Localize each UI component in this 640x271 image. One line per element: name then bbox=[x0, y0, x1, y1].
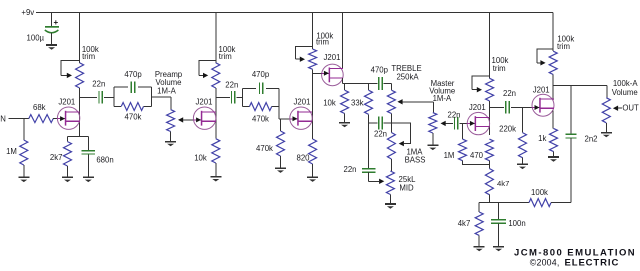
svg-text:IN: IN bbox=[0, 115, 6, 124]
svg-text:10k: 10k bbox=[194, 154, 207, 163]
svg-text:22n: 22n bbox=[225, 80, 238, 89]
svg-text:22n: 22n bbox=[503, 89, 516, 98]
svg-text:68k: 68k bbox=[33, 103, 46, 112]
svg-text:33k: 33k bbox=[351, 98, 364, 107]
svg-text:+9v: +9v bbox=[21, 8, 34, 17]
svg-text:J201: J201 bbox=[196, 97, 213, 106]
svg-text:OUT: OUT bbox=[622, 104, 639, 113]
svg-text:trim: trim bbox=[493, 64, 506, 73]
svg-text:J201: J201 bbox=[469, 103, 486, 112]
svg-text:J201: J201 bbox=[533, 86, 550, 95]
svg-text:4k7: 4k7 bbox=[497, 179, 509, 188]
svg-text:1M: 1M bbox=[6, 147, 17, 156]
svg-text:trim: trim bbox=[557, 42, 570, 51]
svg-text:100µ: 100µ bbox=[27, 34, 45, 43]
svg-text:©2004,: ©2004, bbox=[530, 258, 560, 268]
svg-text:trim: trim bbox=[219, 52, 232, 61]
svg-text:470p: 470p bbox=[124, 70, 142, 79]
svg-text:820: 820 bbox=[296, 154, 310, 163]
svg-text:MID: MID bbox=[399, 183, 414, 192]
svg-text:1M: 1M bbox=[444, 151, 455, 160]
svg-text:100k-A: 100k-A bbox=[613, 79, 639, 88]
svg-text:1k: 1k bbox=[538, 134, 546, 143]
svg-text:22n: 22n bbox=[343, 165, 356, 174]
svg-text:220k: 220k bbox=[499, 125, 516, 134]
svg-text:22n: 22n bbox=[447, 111, 460, 120]
svg-text:470k: 470k bbox=[252, 114, 269, 123]
svg-text:1M-A: 1M-A bbox=[433, 94, 452, 103]
svg-text:470p: 470p bbox=[252, 70, 270, 79]
svg-text:ELECTRIC: ELECTRIC bbox=[565, 258, 620, 269]
svg-text:10k: 10k bbox=[323, 98, 336, 107]
svg-text:22n: 22n bbox=[92, 80, 105, 89]
svg-text:J201: J201 bbox=[324, 53, 341, 62]
svg-text:J201: J201 bbox=[294, 97, 311, 106]
svg-text:470k: 470k bbox=[256, 144, 273, 153]
svg-text:1M-A: 1M-A bbox=[157, 86, 176, 95]
svg-text:470p: 470p bbox=[371, 65, 389, 74]
svg-text:470k: 470k bbox=[125, 113, 142, 122]
svg-text:+: + bbox=[53, 18, 58, 27]
svg-text:100k: 100k bbox=[531, 188, 548, 197]
svg-text:BASS: BASS bbox=[405, 156, 426, 165]
svg-text:22n: 22n bbox=[374, 130, 387, 139]
svg-text:680n: 680n bbox=[96, 155, 113, 164]
svg-text:250kA: 250kA bbox=[396, 72, 419, 81]
svg-text:100n: 100n bbox=[508, 219, 525, 228]
svg-text:2k7: 2k7 bbox=[50, 153, 63, 162]
svg-text:2n2: 2n2 bbox=[584, 135, 597, 144]
svg-text:Volume: Volume bbox=[612, 88, 638, 97]
svg-text:470: 470 bbox=[470, 151, 484, 160]
svg-text:J201: J201 bbox=[58, 97, 75, 106]
svg-text:trim: trim bbox=[316, 38, 329, 47]
svg-text:4k7: 4k7 bbox=[458, 219, 471, 228]
svg-text:trim: trim bbox=[82, 52, 95, 61]
